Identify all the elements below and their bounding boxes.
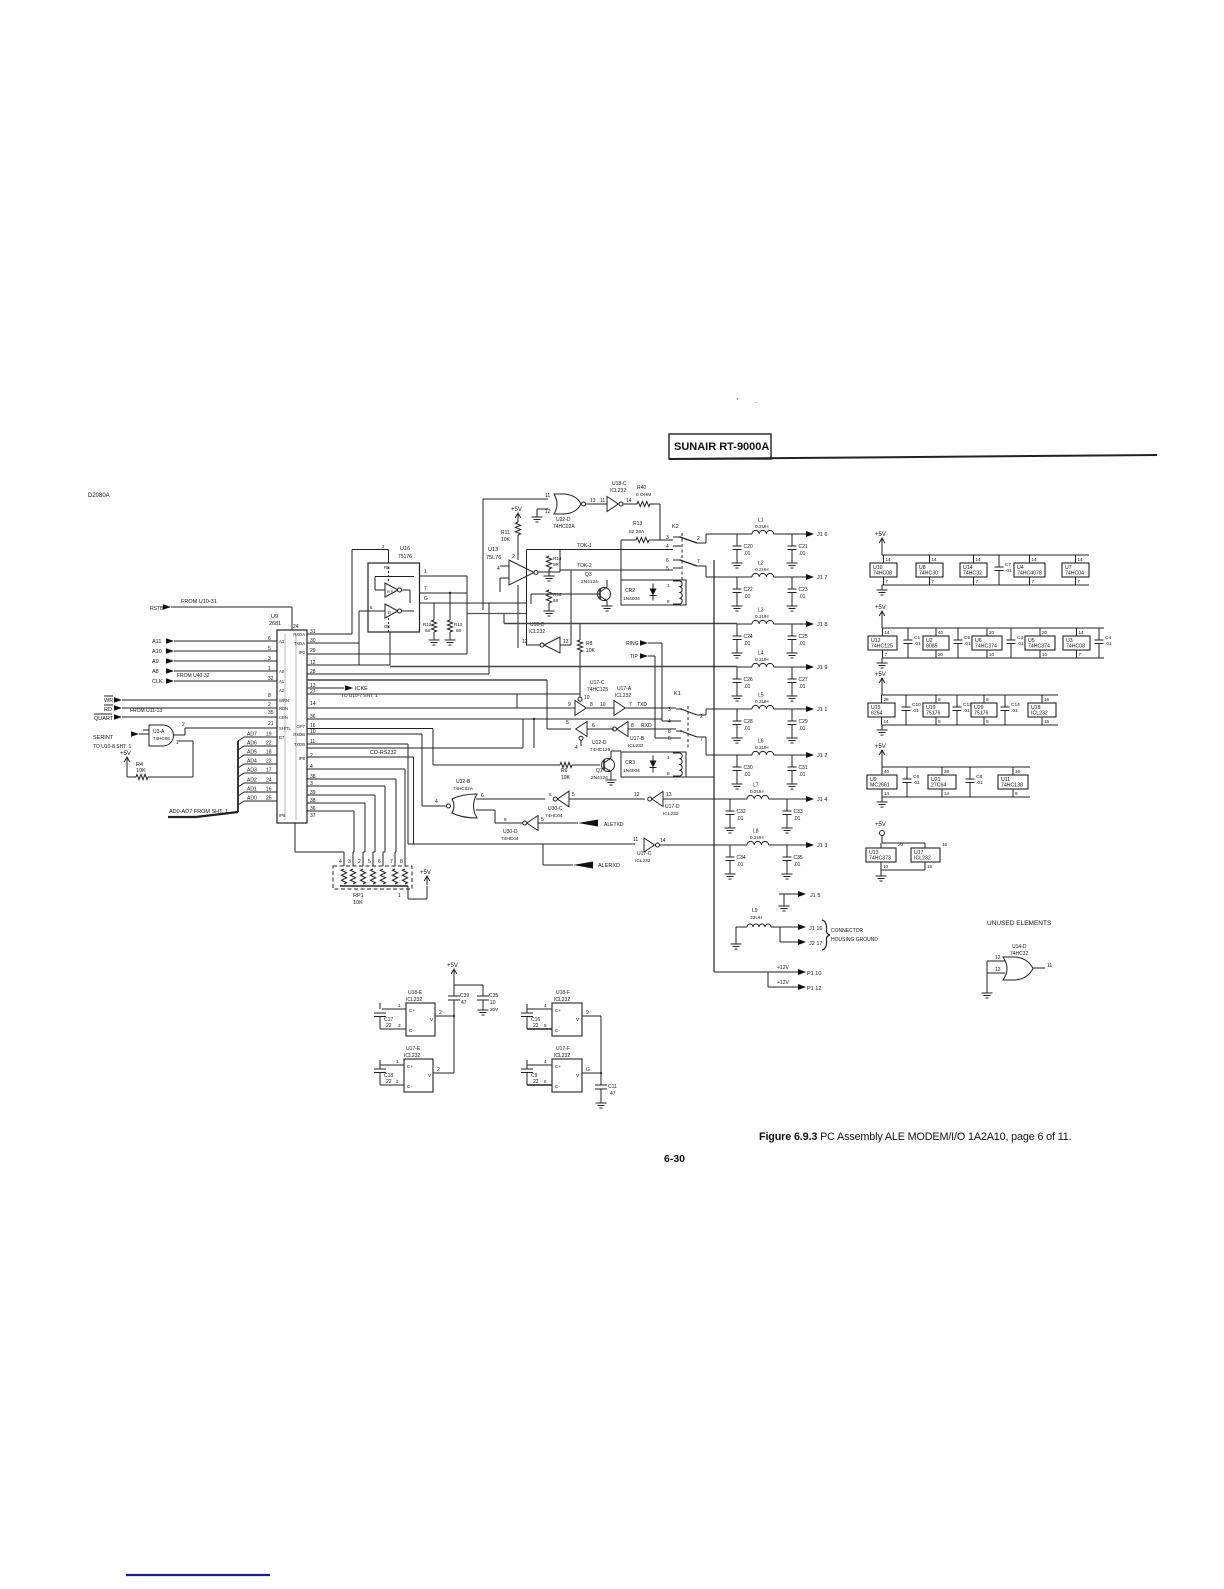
svg-text:74HC125: 74HC125 [590, 747, 611, 753]
svg-text:UNUSED ELEMENTS: UNUSED ELEMENTS [987, 920, 1052, 927]
svg-text:74HC374: 74HC374 [975, 644, 997, 650]
svg-text:RXDA: RXDA [293, 632, 305, 637]
svg-text:28: 28 [944, 769, 950, 774]
svg-text:OP7: OP7 [297, 724, 306, 729]
svg-text:C+: C+ [555, 1008, 561, 1013]
svg-text:R6: R6 [561, 768, 568, 774]
svg-text:0.2UH: 0.2UH [750, 835, 764, 841]
svg-text:2: 2 [437, 1067, 440, 1073]
svg-text:Q3: Q3 [585, 572, 592, 578]
svg-text:L1: L1 [758, 518, 764, 524]
svg-text:4: 4 [339, 859, 342, 865]
svg-text:74HC08: 74HC08 [153, 736, 170, 741]
svg-text:5: 5 [666, 566, 669, 572]
svg-text:TXDA: TXDA [294, 641, 305, 646]
svg-text:U18-F: U18-F [556, 990, 570, 996]
svg-text:15: 15 [1044, 719, 1050, 724]
svg-text:RXDB: RXDB [293, 732, 305, 737]
svg-text:.01: .01 [799, 684, 806, 690]
svg-text:A2: A2 [279, 688, 285, 693]
svg-text:7: 7 [629, 702, 632, 708]
svg-text:5: 5 [566, 720, 569, 726]
svg-text:.01: .01 [1017, 641, 1024, 647]
svg-text:HOUSING GROUND: HOUSING GROUND [831, 937, 878, 943]
svg-text:C39: C39 [460, 993, 469, 999]
svg-text:RING: RING [626, 641, 639, 647]
svg-text:75L76: 75L76 [486, 555, 501, 561]
svg-text:16: 16 [1015, 769, 1021, 774]
svg-text:ICL232: ICL232 [554, 997, 570, 1003]
svg-text:22: 22 [533, 1079, 539, 1085]
svg-text:74HC125: 74HC125 [871, 644, 893, 650]
svg-text:74HC04: 74HC04 [1065, 571, 1084, 577]
svg-text:12: 12 [634, 792, 640, 798]
svg-text:47: 47 [610, 1091, 616, 1097]
svg-text:16: 16 [942, 842, 948, 847]
svg-text:14: 14 [976, 557, 982, 562]
svg-text:C24: C24 [744, 634, 753, 640]
svg-text:5: 5 [268, 646, 271, 652]
svg-text:28: 28 [884, 697, 890, 702]
svg-text:40: 40 [938, 630, 944, 635]
svg-text:C8: C8 [976, 774, 982, 780]
svg-text:U16: U16 [400, 546, 410, 552]
svg-text:C-: C- [555, 1084, 560, 1089]
svg-text:RDN: RDN [279, 706, 288, 711]
svg-text:5: 5 [986, 719, 989, 724]
svg-text:+5V: +5V [875, 744, 886, 750]
svg-text:0.2UH: 0.2UH [755, 614, 769, 620]
svg-text:C-: C- [555, 1028, 560, 1033]
svg-text:C-: C- [409, 1028, 414, 1033]
svg-text:.01: .01 [744, 684, 751, 690]
svg-text:C31: C31 [799, 765, 808, 771]
svg-text:74HC32: 74HC32 [1010, 951, 1029, 957]
svg-text:J1 6: J1 6 [817, 532, 827, 538]
svg-text:3: 3 [398, 1023, 401, 1028]
svg-text:K2: K2 [672, 524, 679, 530]
svg-text:ALETXD: ALETXD [604, 822, 624, 828]
svg-text:8: 8 [268, 693, 271, 699]
svg-text:L4: L4 [758, 651, 764, 657]
svg-text:74HC30: 74HC30 [919, 571, 938, 577]
svg-text:C+: C+ [555, 1064, 561, 1069]
svg-text:40: 40 [884, 769, 890, 774]
svg-text:68: 68 [425, 628, 430, 633]
svg-text:C10: C10 [912, 702, 921, 708]
svg-text:74HC374: 74HC374 [1028, 644, 1050, 650]
svg-text:+5V: +5V [875, 672, 886, 678]
svg-text:.01: .01 [737, 862, 744, 868]
svg-text:14: 14 [932, 557, 938, 562]
svg-text:ICL232: ICL232 [406, 997, 422, 1003]
svg-text:6: 6 [668, 736, 671, 742]
svg-text:1: 1 [667, 583, 670, 588]
svg-text:7: 7 [390, 859, 393, 865]
svg-text:62 26A: 62 26A [629, 529, 645, 535]
svg-text:L6: L6 [758, 739, 764, 745]
svg-text:74HC02A: 74HC02A [453, 786, 474, 791]
svg-text:6264: 6264 [871, 711, 883, 717]
svg-text:J1 9: J1 9 [817, 665, 827, 671]
svg-text:14: 14 [885, 630, 891, 635]
svg-text:13: 13 [666, 792, 672, 798]
svg-text:4: 4 [544, 1003, 547, 1008]
svg-text:37: 37 [310, 813, 316, 819]
svg-text:.01: .01 [1011, 708, 1018, 714]
svg-text:C14: C14 [1011, 702, 1020, 708]
svg-text:.01: .01 [744, 551, 751, 557]
svg-text:75176: 75176 [398, 554, 412, 560]
svg-text:0.2UH: 0.2UH [755, 524, 769, 530]
svg-text:J2 17: J2 17 [809, 941, 822, 947]
svg-text:C5: C5 [964, 635, 970, 641]
svg-text:ICL232: ICL232 [628, 743, 644, 749]
svg-text:ICL232: ICL232 [663, 811, 679, 817]
svg-text:R13: R13 [633, 521, 642, 527]
svg-text:+5V: +5V [875, 822, 886, 828]
svg-text:IP8: IP8 [299, 756, 306, 761]
svg-text:2: 2 [268, 702, 271, 708]
svg-text:+12V: +12V [777, 965, 789, 971]
svg-text:24: 24 [293, 624, 299, 630]
svg-text:5: 5 [544, 1023, 547, 1028]
svg-text:A0: A0 [279, 669, 285, 674]
svg-text:20: 20 [1042, 630, 1048, 635]
svg-text:2: 2 [182, 722, 185, 728]
svg-text:8: 8 [400, 859, 403, 865]
svg-text:20V: 20V [490, 1007, 499, 1012]
svg-text:C22: C22 [744, 587, 753, 593]
svg-text:22: 22 [386, 1079, 392, 1085]
svg-text:10K: 10K [501, 537, 511, 543]
svg-text:.01: .01 [964, 641, 971, 647]
svg-text:1: 1 [396, 1059, 399, 1064]
svg-text:J1 16: J1 16 [809, 926, 822, 932]
svg-text:33UH: 33UH [750, 915, 763, 921]
svg-text:C32: C32 [737, 809, 746, 815]
svg-text:.01: .01 [744, 772, 751, 778]
svg-text:U9: U9 [271, 614, 278, 620]
svg-text:14: 14 [944, 791, 950, 796]
svg-text:R13: R13 [454, 622, 463, 627]
svg-text:C30: C30 [744, 765, 753, 771]
svg-text:.01: .01 [744, 726, 751, 732]
svg-text:74HC138: 74HC138 [1001, 783, 1023, 789]
svg-text:+5V: +5V [447, 963, 458, 969]
svg-text:11: 11 [633, 837, 638, 843]
svg-text:8: 8 [631, 723, 634, 729]
svg-text:8: 8 [667, 599, 670, 604]
svg-text:7: 7 [886, 579, 889, 584]
svg-text:6: 6 [549, 792, 552, 797]
svg-text:A1: A1 [279, 679, 285, 684]
svg-text:1: 1 [398, 1003, 401, 1008]
svg-text:C33: C33 [794, 809, 803, 815]
svg-text:12: 12 [995, 955, 1001, 961]
svg-text:C26: C26 [744, 677, 753, 683]
svg-text:.01: .01 [976, 780, 983, 786]
svg-text:2: 2 [310, 753, 313, 759]
svg-text:3: 3 [396, 1079, 399, 1084]
svg-text:.01: .01 [744, 641, 751, 647]
svg-text:TIP: TIP [630, 654, 638, 660]
svg-text:.01: .01 [1105, 641, 1112, 647]
svg-text:ICL232: ICL232 [914, 856, 931, 862]
svg-text:J1 8: J1 8 [817, 622, 827, 628]
svg-text:2: 2 [439, 1010, 442, 1016]
svg-text:3: 3 [668, 707, 671, 713]
svg-text:14: 14 [884, 791, 890, 796]
svg-text:1N4004: 1N4004 [623, 596, 640, 602]
svg-text:6-30: 6-30 [664, 1153, 685, 1165]
svg-text:R S: R S [387, 590, 394, 594]
svg-text:J1 5: J1 5 [810, 893, 820, 899]
svg-text:L2: L2 [758, 561, 764, 567]
svg-text:+5V: +5V [511, 507, 522, 513]
svg-text:74HC32: 74HC32 [963, 571, 982, 577]
svg-text:2: 2 [382, 544, 385, 549]
svg-text:7: 7 [700, 737, 703, 743]
svg-text:7: 7 [697, 559, 700, 565]
svg-text:74HC02A: 74HC02A [553, 524, 575, 530]
svg-text:FROM U11-13: FROM U11-13 [130, 708, 162, 714]
svg-text:CD-RS232: CD-RS232 [370, 750, 397, 756]
svg-text:R40: R40 [637, 485, 646, 491]
svg-text:14: 14 [1032, 557, 1038, 562]
svg-text:4: 4 [668, 719, 671, 725]
svg-text:74HC125: 74HC125 [587, 687, 608, 693]
svg-text:8: 8 [1015, 791, 1018, 796]
svg-text:.01: .01 [799, 594, 806, 600]
svg-text:RXD: RXD [641, 723, 652, 729]
svg-text:14: 14 [884, 719, 890, 724]
svg-text:3: 3 [666, 535, 669, 541]
svg-text:C34: C34 [737, 855, 746, 861]
svg-text:L9: L9 [752, 908, 758, 914]
svg-text:A10: A10 [152, 649, 162, 655]
svg-text:ICL232: ICL232 [635, 858, 651, 864]
svg-text:6: 6 [592, 723, 595, 729]
svg-text:10: 10 [883, 864, 889, 869]
svg-text:2: 2 [358, 859, 361, 865]
svg-text:8085: 8085 [926, 644, 938, 650]
svg-text:14: 14 [660, 838, 666, 844]
svg-text:9: 9 [586, 1010, 589, 1016]
svg-text:74HC04: 74HC04 [501, 836, 519, 842]
svg-text:9: 9 [568, 702, 571, 708]
svg-text:CEN: CEN [279, 715, 288, 720]
svg-text:U18-E: U18-E [408, 990, 423, 996]
svg-text:U17-E: U17-E [406, 1046, 421, 1052]
svg-text:C7: C7 [1005, 562, 1011, 568]
svg-text:U30-D: U30-D [503, 829, 518, 835]
svg-text:20: 20 [938, 652, 944, 657]
svg-text:ALERXD: ALERXD [598, 863, 620, 869]
svg-text:1: 1 [268, 666, 271, 672]
svg-text:L7: L7 [753, 783, 759, 789]
svg-text:8: 8 [986, 697, 989, 702]
svg-text:L5: L5 [758, 693, 764, 699]
svg-text:FROM U10-31: FROM U10-31 [181, 599, 217, 605]
svg-text:0 OHM: 0 OHM [636, 492, 651, 498]
svg-text:20: 20 [989, 630, 995, 635]
svg-text:RE: RE [384, 565, 390, 570]
svg-text:10: 10 [584, 695, 590, 701]
svg-text:SH/TL: SH/TL [279, 726, 292, 731]
svg-text:75176: 75176 [974, 711, 989, 717]
svg-text:ICKE: ICKE [355, 686, 368, 692]
svg-text:1: 1 [424, 569, 427, 575]
svg-text:+5V: +5V [875, 532, 886, 538]
svg-text:7: 7 [976, 579, 979, 584]
svg-text:12: 12 [522, 639, 528, 645]
svg-text:.01: .01 [737, 816, 744, 822]
svg-text:SUNAIR RT-9000A: SUNAIR RT-9000A [674, 441, 769, 453]
svg-text:U17-F: U17-F [556, 1046, 570, 1052]
svg-text:J1 4: J1 4 [817, 797, 827, 803]
svg-text:22: 22 [533, 1023, 539, 1029]
svg-text:68: 68 [456, 628, 461, 633]
svg-text:3: 3 [348, 859, 351, 865]
svg-text:21: 21 [268, 721, 274, 727]
svg-text:6: 6 [268, 636, 271, 642]
svg-text:14: 14 [886, 557, 892, 562]
svg-text:QUART: QUART [94, 716, 114, 722]
svg-text:0.2UH: 0.2UH [755, 745, 769, 751]
svg-text:C+: C+ [407, 1064, 413, 1069]
svg-text:10K: 10K [353, 900, 363, 906]
svg-text:2N4124: 2N4124 [581, 579, 598, 585]
svg-text:C11: C11 [608, 1084, 617, 1090]
svg-text:4: 4 [666, 544, 669, 550]
svg-text:13: 13 [590, 498, 596, 504]
svg-text:0.2UH: 0.2UH [750, 789, 764, 795]
svg-text:.01: .01 [799, 641, 806, 647]
svg-text:10K: 10K [586, 648, 596, 654]
svg-text:7: 7 [1032, 579, 1035, 584]
svg-text:.01: .01 [799, 551, 806, 557]
svg-text:C6: C6 [913, 774, 919, 780]
svg-text:CR3: CR3 [625, 760, 635, 766]
svg-text:8R: 8R [553, 562, 560, 567]
svg-text:+5V: +5V [875, 605, 886, 611]
svg-text:2681: 2681 [269, 621, 281, 627]
svg-text:10: 10 [989, 652, 995, 657]
svg-text:.01: .01 [799, 772, 806, 778]
svg-text:35: 35 [268, 710, 274, 716]
svg-text:+5V: +5V [420, 870, 431, 876]
svg-text:7: 7 [1078, 579, 1081, 584]
svg-text:IP0: IP0 [299, 650, 306, 655]
svg-text:8: 8 [504, 817, 507, 822]
svg-text:29: 29 [310, 648, 316, 654]
svg-text:14: 14 [1079, 630, 1085, 635]
svg-text:20: 20 [898, 842, 904, 847]
svg-text:U13: U13 [488, 547, 498, 553]
svg-text:5: 5 [572, 792, 575, 798]
svg-text:.01: .01 [914, 641, 921, 647]
svg-text:TXD: TXD [637, 702, 647, 708]
svg-text:32: 32 [268, 676, 274, 682]
svg-text:10K: 10K [561, 775, 571, 781]
svg-text:ICL232: ICL232 [615, 693, 631, 699]
svg-text:.01: .01 [913, 780, 920, 786]
svg-text:A9: A9 [152, 659, 159, 665]
svg-text:IP8: IP8 [279, 813, 286, 818]
svg-text:J1 7: J1 7 [817, 575, 827, 581]
svg-text:4: 4 [435, 799, 438, 805]
svg-text:68: 68 [553, 598, 559, 603]
svg-text:AD0-AD7 FROM SHT. 1: AD0-AD7 FROM SHT. 1 [169, 809, 228, 815]
svg-text:`: ` [755, 403, 757, 409]
svg-text:.01: .01 [963, 708, 970, 714]
svg-text:K1: K1 [674, 691, 681, 697]
svg-text:.01: .01 [794, 816, 801, 822]
svg-text:A8: A8 [152, 669, 159, 675]
svg-text:74HC08: 74HC08 [1066, 644, 1085, 650]
svg-text:U17-A: U17-A [617, 686, 632, 692]
svg-text:13: 13 [563, 639, 569, 645]
svg-text:CLK: CLK [152, 679, 163, 685]
svg-text:TOK-2: TOK-2 [577, 563, 592, 569]
svg-text:C21: C21 [799, 544, 808, 550]
svg-text:4: 4 [497, 566, 500, 572]
svg-text:C1: C1 [914, 635, 920, 641]
svg-text:U3-A: U3-A [153, 729, 165, 735]
svg-text:C27: C27 [799, 677, 808, 683]
svg-text:75176: 75176 [926, 711, 941, 717]
svg-text:10: 10 [600, 702, 606, 708]
svg-text:74HC04: 74HC04 [545, 813, 563, 819]
svg-text:CONNECTOR: CONNECTOR [831, 928, 864, 934]
svg-text:TXDB: TXDB [294, 742, 305, 747]
svg-text:U18-C: U18-C [612, 481, 627, 487]
svg-text:C35: C35 [489, 993, 498, 999]
svg-text:.01: .01 [912, 708, 919, 714]
svg-text:R11: R11 [501, 530, 510, 536]
svg-text:C3: C3 [1017, 635, 1023, 641]
svg-text:WR: WR [104, 698, 113, 704]
svg-text:6: 6 [481, 793, 484, 799]
svg-text:ICL232: ICL232 [404, 1053, 420, 1059]
svg-text:7: 7 [424, 586, 427, 592]
svg-text:J1 1: J1 1 [817, 707, 827, 713]
svg-text:L3: L3 [758, 608, 764, 614]
svg-text:8: 8 [668, 729, 671, 735]
svg-text:1N4004: 1N4004 [623, 768, 640, 774]
svg-text:74HC373: 74HC373 [869, 856, 891, 862]
svg-text:15: 15 [927, 864, 933, 869]
svg-text:U32-B: U32-B [456, 779, 471, 785]
svg-text:Q1: Q1 [596, 768, 603, 774]
svg-text:U22-D: U22-D [556, 517, 571, 523]
svg-text:14: 14 [1078, 557, 1084, 562]
svg-text:C29: C29 [799, 719, 808, 725]
svg-text:11: 11 [1047, 963, 1052, 969]
svg-text:10K: 10K [136, 768, 146, 774]
svg-text:C35: C35 [794, 855, 803, 861]
svg-text:C-: C- [407, 1084, 412, 1089]
svg-text:4: 4 [575, 745, 578, 751]
svg-text:8: 8 [590, 702, 593, 708]
svg-text:4: 4 [544, 1059, 547, 1064]
svg-text:U12-D: U12-D [592, 740, 607, 746]
svg-text:J1 2: J1 2 [817, 753, 827, 759]
svg-text:ICL232: ICL232 [529, 629, 545, 635]
svg-text:+12V: +12V [777, 980, 789, 986]
svg-text:8: 8 [938, 697, 941, 702]
